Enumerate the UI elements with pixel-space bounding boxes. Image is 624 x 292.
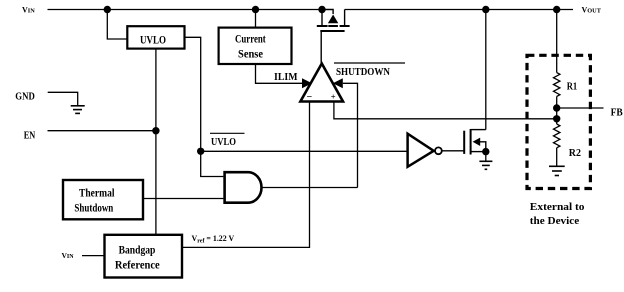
svg-text:UVLO: UVLO — [140, 35, 166, 47]
Q1 source bar — [317, 25, 328, 27]
transistor Q2 NMOS — [464, 129, 486, 155]
junction dot VOUT-NMOS drain — [482, 6, 489, 13]
op-amp U2 error amplifier — [300, 64, 343, 104]
Q2 body arrow (points left) — [473, 138, 481, 146]
svg-text:+: + — [331, 92, 336, 102]
Q2 drain stub — [471, 129, 486, 131]
Q1 drain lead — [344, 10, 346, 27]
block Thermal Shutdown — [63, 180, 143, 219]
block Current Sense — [219, 28, 292, 64]
svg-text:Sense: Sense — [238, 49, 263, 61]
Q1 drain bar — [340, 25, 350, 27]
wire ILIM from Current Sense — [256, 64, 303, 84]
node VOUT label — [582, 6, 602, 15]
Q1 gate bar — [320, 30, 344, 32]
block UVLO U1 — [127, 26, 184, 48]
Q2 body stub — [480, 142, 486, 152]
junction dot VOUT-R1 — [553, 6, 560, 13]
junction dot UVLO-bar node — [197, 148, 204, 155]
dashed box external components — [527, 55, 590, 188]
wire inverter output to Q2 gate — [442, 150, 464, 152]
label UVLO-bar with overline — [210, 133, 245, 148]
svg-text:−: − — [307, 92, 313, 103]
svg-text:ILIM: ILIM — [274, 72, 298, 83]
wire VOUT rail — [345, 9, 573, 11]
Q1 source lead — [321, 10, 323, 26]
wire Q2 source to ground — [485, 152, 487, 161]
block Bandgap Reference — [105, 235, 183, 278]
svg-text:Current: Current — [235, 34, 266, 46]
resistor R2 — [554, 124, 582, 159]
svg-text:FB: FB — [611, 108, 623, 119]
wire R2 bottom to ground — [556, 148, 558, 166]
wire UVLO output right then down to AND input 1 — [185, 37, 224, 176]
resistor R1 — [554, 73, 578, 97]
svg-text:R1: R1 — [567, 82, 578, 93]
wire SHUTDOWN from AND gate output up to amp right side — [343, 83, 358, 187]
junction dot VIN-CurrentSense tap — [252, 6, 259, 13]
arrow ILIM into amp left side — [302, 78, 312, 88]
gate U4 inverter — [408, 134, 442, 167]
Q1 body bar — [328, 25, 338, 27]
junction dot amp feedback tap — [553, 115, 560, 122]
svg-text:GND: GND — [15, 92, 35, 103]
wire amp minus input from Vref — [182, 102, 310, 248]
wire FB out — [557, 107, 604, 109]
wire amp plus input from FB divider — [334, 102, 557, 119]
gate U3 AND — [225, 172, 262, 203]
wire UVLO-bar to inverter input — [201, 150, 408, 152]
label SHUTDOWN with overline — [334, 63, 405, 78]
junction dot VIN-UVLO tap — [104, 6, 111, 13]
node VIN label (bandgap input) — [62, 251, 75, 260]
Q2 gate bar — [463, 131, 465, 154]
svg-text:SHUTDOWN: SHUTDOWN — [336, 67, 390, 78]
wire VIN tap down to UVLO input — [107, 10, 127, 40]
wire R1 bottom to junction — [556, 96, 558, 124]
transistor Q1 PMOS pass device — [317, 10, 350, 65]
wire Thermal Shutdown output to AND input 2 — [143, 198, 223, 200]
Q2 channel bar — [470, 129, 472, 155]
ground symbol at Q2 source — [479, 161, 492, 169]
ground symbol at GND pin — [71, 106, 85, 114]
wire EN to UVLO chain — [48, 130, 156, 132]
junction dot EN node — [152, 127, 159, 134]
svg-text:Thermal: Thermal — [79, 188, 115, 200]
wire AND output — [262, 187, 358, 189]
label Vref = 1.22 V — [192, 234, 235, 245]
svg-text:EN: EN — [24, 131, 36, 142]
svg-text:External to: External to — [530, 202, 585, 213]
Q1 body stub from VIN dot — [322, 10, 333, 15]
svg-text:Bandgap: Bandgap — [119, 245, 156, 257]
label External to the Device — [530, 202, 585, 227]
Q1 gate lead to error amp output — [320, 31, 322, 64]
wire GND lead — [48, 92, 78, 105]
junction dot Q2 source-body — [482, 148, 489, 155]
wire VIN to Bandgap — [82, 255, 105, 257]
wire VOUT down to R1 — [556, 10, 558, 73]
svg-text:R2: R2 — [569, 148, 581, 159]
node VIN label — [22, 6, 35, 15]
wire Q2 drain up to VOUT rail — [485, 10, 487, 130]
svg-text:Shutdown: Shutdown — [74, 203, 113, 215]
svg-text:Reference: Reference — [115, 260, 160, 272]
wire CurrentSense top from VIN rail — [255, 10, 257, 28]
svg-text:the Device: the Device — [530, 216, 580, 227]
svg-text:VOUT: VOUT — [582, 6, 602, 15]
svg-text:VIN: VIN — [22, 6, 35, 15]
ground symbol at R2 — [549, 166, 565, 175]
junction dot FB tap — [553, 104, 560, 111]
Q2 source stub — [471, 151, 486, 153]
wire VIN rail — [48, 9, 323, 11]
junction dot VIN-Q1 source — [318, 6, 325, 13]
arrow SHUTDOWN into amp right side — [333, 78, 343, 88]
svg-text:UVLO: UVLO — [211, 137, 236, 148]
wire UVLO bottom down to Bandgap top — [155, 49, 157, 235]
Q1 body arrow (points up) — [328, 15, 338, 24]
